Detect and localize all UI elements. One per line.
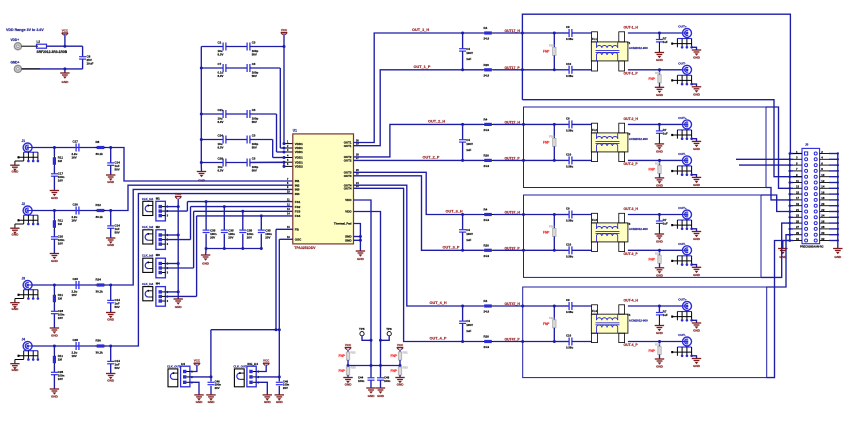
- svg-text:GND: GND: [693, 237, 701, 241]
- svg-text:0.56u: 0.56u: [566, 310, 573, 314]
- svg-text:CLK_in1: CLK_in1: [142, 197, 154, 201]
- svg-text:50V: 50V: [115, 366, 120, 370]
- svg-text:C21: C21: [218, 108, 224, 112]
- svg-text:T3: T3: [627, 222, 631, 226]
- svg-text:GND: GND: [276, 400, 284, 404]
- svg-text:GND: GND: [656, 365, 664, 369]
- svg-text:R4: R4: [484, 118, 488, 122]
- svg-text:OUT47_P: OUT47_P: [505, 338, 521, 342]
- svg-text:16V: 16V: [58, 241, 63, 245]
- svg-text:OUT-2_P: OUT-2_P: [624, 162, 639, 166]
- svg-text:GND: GND: [264, 400, 272, 404]
- svg-text:C3: C3: [252, 62, 256, 66]
- svg-text:T4: T4: [627, 313, 631, 317]
- svg-text:FL2: FL2: [592, 128, 597, 132]
- svg-text:GND: GND: [51, 395, 59, 399]
- svg-text:24.9: 24.9: [484, 218, 490, 222]
- svg-text:IN4: IN4: [295, 192, 300, 196]
- svg-text:C26: C26: [218, 156, 224, 160]
- svg-text:OUT_1_H: OUT_1_H: [412, 28, 429, 32]
- svg-text:R20: R20: [484, 63, 490, 67]
- svg-text:30.1k: 30.1k: [96, 350, 104, 354]
- svg-text:OUT_1_P: OUT_1_P: [414, 65, 431, 69]
- svg-text:GND: GND: [107, 379, 115, 383]
- svg-text:30: 30: [821, 231, 825, 235]
- svg-text:OUT-3_P: OUT-3_P: [624, 252, 639, 256]
- svg-text:1uF: 1uF: [466, 148, 471, 152]
- svg-text:VDD1: VDD1: [295, 150, 303, 154]
- svg-text:24.9: 24.9: [484, 345, 490, 349]
- svg-text:50V: 50V: [115, 305, 120, 309]
- svg-text:T1: T1: [627, 41, 631, 45]
- svg-text:50V: 50V: [115, 230, 120, 234]
- svg-text:100V: 100V: [466, 323, 473, 327]
- svg-text:19: 19: [796, 202, 800, 206]
- svg-text:C24: C24: [218, 133, 224, 137]
- svg-text:OUT-1_P: OUT-1_P: [624, 71, 639, 75]
- svg-text:C10: C10: [566, 62, 572, 66]
- svg-text:ACM2012-900: ACM2012-900: [629, 318, 648, 322]
- svg-text:0.56u: 0.56u: [566, 37, 573, 41]
- svg-text:M3: M3: [156, 253, 160, 257]
- svg-text:6.3V: 6.3V: [218, 74, 224, 78]
- svg-text:FS4: FS4: [295, 214, 301, 218]
- svg-text:C28: C28: [73, 338, 79, 342]
- svg-text:20V: 20V: [215, 386, 220, 390]
- svg-text:CLK_OUT: CLK_OUT: [167, 365, 180, 369]
- svg-text:20V: 20V: [228, 235, 233, 239]
- svg-text:24.9: 24.9: [484, 37, 490, 41]
- svg-text:FS1: FS1: [295, 200, 301, 204]
- svg-text:R30: R30: [96, 339, 102, 343]
- svg-text:R4: R4: [484, 299, 488, 303]
- svg-text:VDD: VDD: [345, 210, 352, 214]
- svg-text:17: 17: [796, 196, 800, 200]
- svg-text:50V: 50V: [252, 168, 257, 172]
- svg-text:30.1k: 30.1k: [96, 289, 104, 293]
- svg-text:C10: C10: [566, 242, 572, 246]
- svg-text:6.3V: 6.3V: [218, 52, 224, 56]
- svg-text:OSC: OSC: [295, 238, 302, 242]
- svg-text:GND: GND: [693, 329, 701, 333]
- svg-text:OUT_2_P: OUT_2_P: [423, 156, 440, 160]
- svg-text:FB8: FB8: [549, 316, 555, 320]
- svg-text:VCC: VCC: [175, 192, 182, 196]
- svg-text:FS2: FS2: [295, 205, 301, 209]
- svg-text:OUT+: OUT+: [678, 206, 687, 210]
- svg-text:R33: R33: [403, 366, 409, 370]
- svg-text:VCC: VCC: [345, 343, 352, 347]
- svg-text:OUT37_H: OUT37_H: [505, 211, 521, 215]
- svg-text:16: 16: [821, 190, 825, 194]
- svg-text:C9: C9: [566, 298, 570, 302]
- svg-text:CLK_in3: CLK_in3: [142, 254, 154, 258]
- svg-text:GND: GND: [51, 196, 59, 200]
- svg-text:R8: R8: [96, 140, 100, 144]
- svg-text:16V: 16V: [72, 293, 77, 297]
- svg-text:50V: 50V: [252, 52, 257, 56]
- svg-text:CLK_in2: CLK_in2: [142, 225, 154, 229]
- svg-text:H4: H4: [181, 362, 185, 366]
- svg-text:OUT_4_H: OUT_4_H: [430, 301, 447, 305]
- svg-text:IDE_H4: IDE_H4: [247, 362, 258, 366]
- svg-text:24: 24: [821, 214, 825, 218]
- svg-text:OUT27_P: OUT27_P: [505, 157, 521, 161]
- svg-text:R4: R4: [484, 26, 488, 30]
- svg-text:C3: C3: [252, 133, 256, 137]
- svg-text:10: 10: [821, 173, 825, 177]
- svg-text:16V: 16V: [72, 218, 77, 222]
- svg-text:M1: M1: [156, 196, 160, 200]
- svg-text:C9: C9: [566, 25, 570, 29]
- svg-text:25: 25: [796, 219, 800, 223]
- svg-text:24.9: 24.9: [484, 254, 490, 258]
- svg-text:50V: 50V: [115, 167, 120, 171]
- svg-text:OUT-4_H: OUT-4_H: [624, 299, 639, 303]
- svg-text:GND: GND: [656, 183, 664, 187]
- svg-text:C10: C10: [566, 334, 572, 338]
- svg-text:0.56u: 0.56u: [566, 164, 573, 168]
- svg-text:FB8: FB8: [549, 134, 555, 138]
- svg-text:6.3V: 6.3V: [218, 168, 224, 172]
- svg-text:OUT27_H: OUT27_H: [505, 121, 521, 125]
- svg-text:1M: 1M: [58, 357, 63, 361]
- svg-text:1uF: 1uF: [663, 131, 668, 135]
- svg-text:27: 27: [796, 225, 800, 229]
- svg-text:26: 26: [821, 219, 825, 223]
- svg-text:U1: U1: [293, 129, 297, 133]
- svg-text:OUT47_H: OUT47_H: [505, 302, 521, 306]
- svg-text:Thermal_Pad: Thermal_Pad: [334, 222, 352, 226]
- svg-text:30.1k: 30.1k: [96, 152, 104, 156]
- svg-text:GND: GND: [693, 92, 701, 96]
- svg-text:VDD+: VDD+: [11, 38, 20, 42]
- svg-text:VDD: VDD: [345, 198, 352, 202]
- svg-text:GND: GND: [107, 243, 115, 247]
- svg-text:0.56u: 0.56u: [566, 128, 573, 132]
- svg-text:R31: R31: [351, 351, 357, 355]
- svg-text:R17: R17: [655, 71, 661, 75]
- svg-text:OUT17_P: OUT17_P: [505, 66, 521, 70]
- svg-text:C3: C3: [252, 108, 256, 112]
- svg-text:C10: C10: [566, 152, 572, 156]
- svg-text:OUT-: OUT-: [678, 242, 685, 246]
- svg-text:VDD1: VDD1: [295, 156, 303, 160]
- svg-text:1uF: 1uF: [663, 40, 668, 44]
- svg-text:GND: GND: [693, 273, 701, 277]
- svg-text:GND: GND: [202, 262, 210, 266]
- svg-text:C20: C20: [73, 203, 79, 207]
- svg-text:OUT-2_H: OUT-2_H: [624, 117, 639, 121]
- svg-text:OUT37_P: OUT37_P: [505, 246, 521, 250]
- svg-text:OUT-3_H: OUT-3_H: [624, 207, 639, 211]
- svg-text:C2: C2: [218, 40, 222, 44]
- svg-text:J2: J2: [22, 202, 26, 206]
- svg-text:GND: GND: [656, 149, 664, 153]
- svg-text:0.56u: 0.56u: [566, 254, 573, 258]
- svg-text:C3: C3: [252, 40, 256, 44]
- svg-text:32: 32: [821, 237, 825, 241]
- svg-text:R17: R17: [655, 251, 661, 255]
- svg-text:1uF: 1uF: [663, 222, 668, 226]
- svg-text:C7: C7: [218, 62, 222, 66]
- svg-text:J1: J1: [22, 139, 26, 143]
- svg-text:J5: J5: [805, 143, 809, 147]
- svg-text:6.3V: 6.3V: [218, 120, 224, 124]
- svg-text:1M: 1M: [58, 159, 63, 163]
- svg-text:CLK_in4: CLK_in4: [142, 282, 154, 286]
- svg-text:GND: GND: [397, 383, 405, 387]
- svg-text:20V: 20V: [210, 235, 215, 239]
- svg-text:22: 22: [821, 208, 825, 212]
- svg-text:OUT_4_P: OUT_4_P: [430, 337, 447, 341]
- svg-text:GND: GND: [175, 305, 183, 309]
- svg-text:J3: J3: [22, 276, 26, 280]
- svg-text:1uF: 1uF: [663, 313, 668, 317]
- svg-text:GND: GND: [377, 394, 385, 398]
- svg-text:100n: 100n: [358, 379, 365, 383]
- svg-text:FNP: FNP: [649, 168, 656, 172]
- svg-text:VCC: VCC: [62, 28, 69, 32]
- svg-text:FNP: FNP: [543, 141, 550, 145]
- svg-text:VCC: VCC: [263, 359, 270, 363]
- svg-text:VDD2: VDD2: [295, 165, 303, 169]
- svg-text:14: 14: [821, 185, 825, 189]
- svg-text:PREC016SAAN-RC: PREC016SAAN-RC: [800, 245, 824, 249]
- svg-text:GND: GND: [656, 93, 664, 97]
- svg-text:GND: GND: [196, 400, 204, 404]
- svg-text:0.56u: 0.56u: [566, 74, 573, 78]
- svg-text:100V: 100V: [466, 142, 473, 146]
- svg-text:GND: GND: [693, 364, 701, 368]
- svg-text:C9: C9: [566, 116, 570, 120]
- svg-text:J4: J4: [22, 337, 26, 341]
- svg-text:OUT_3_H: OUT_3_H: [446, 210, 463, 214]
- svg-text:50V: 50V: [252, 74, 257, 78]
- svg-text:ACM2012-900: ACM2012-900: [629, 46, 648, 50]
- svg-text:GND: GND: [11, 368, 19, 372]
- svg-text:29: 29: [796, 231, 800, 235]
- svg-text:24.9: 24.9: [484, 73, 490, 77]
- svg-text:GND: GND: [107, 180, 115, 184]
- svg-text:FNP: FNP: [339, 354, 346, 358]
- svg-text:1uF: 1uF: [466, 238, 471, 242]
- svg-text:OUT_2_H: OUT_2_H: [428, 120, 445, 124]
- svg-text:100n: 100n: [384, 379, 391, 383]
- svg-text:M4: M4: [156, 282, 160, 286]
- svg-text:OUT2: OUT2: [344, 159, 352, 163]
- svg-text:1M: 1M: [58, 296, 63, 300]
- svg-text:1uF: 1uF: [466, 57, 471, 61]
- svg-text:FB8: FB8: [549, 43, 555, 47]
- svg-text:20V: 20V: [265, 235, 270, 239]
- svg-text:R4: R4: [484, 208, 488, 212]
- svg-text:50V: 50V: [252, 120, 257, 124]
- svg-text:VDD1: VDD1: [295, 142, 303, 146]
- svg-text:28: 28: [821, 225, 825, 229]
- svg-text:TP5: TP5: [359, 327, 365, 331]
- svg-text:C17: C17: [73, 140, 79, 144]
- svg-text:20: 20: [821, 202, 825, 206]
- svg-text:24.9: 24.9: [484, 164, 490, 168]
- svg-text:R20: R20: [484, 335, 490, 339]
- svg-text:16V: 16V: [72, 354, 77, 358]
- svg-text:20V: 20V: [283, 386, 288, 390]
- svg-text:VCC: VCC: [281, 28, 288, 32]
- svg-text:1M: 1M: [58, 222, 63, 226]
- svg-text:FNP: FNP: [339, 369, 346, 373]
- svg-text:24.9: 24.9: [484, 128, 490, 132]
- svg-text:0.56u: 0.56u: [566, 219, 573, 223]
- svg-text:FB8: FB8: [549, 224, 555, 228]
- svg-text:GND: GND: [11, 169, 19, 173]
- svg-text:GND: GND: [11, 307, 19, 311]
- svg-text:C9: C9: [566, 207, 570, 211]
- svg-text:16V: 16V: [58, 178, 63, 182]
- svg-text:FNP: FNP: [391, 354, 398, 358]
- svg-text:OUT-: OUT-: [678, 152, 685, 156]
- svg-text:31: 31: [796, 237, 800, 241]
- svg-text:GND+: GND+: [11, 61, 20, 65]
- svg-text:ACM2012-900: ACM2012-900: [629, 227, 648, 231]
- svg-text:18: 18: [821, 196, 825, 200]
- svg-text:FNP: FNP: [543, 231, 550, 235]
- svg-text:12: 12: [821, 179, 825, 183]
- svg-text:VCC: VCC: [194, 359, 201, 363]
- svg-text:SRF2012-3R3-1R0B: SRF2012-3R3-1R0B: [37, 50, 68, 54]
- svg-text:GND: GND: [11, 232, 19, 236]
- svg-text:GND: GND: [345, 383, 353, 387]
- svg-text:GND: GND: [693, 183, 701, 187]
- svg-text:TPA3251DDV: TPA3251DDV: [294, 246, 316, 250]
- svg-text:R20: R20: [484, 244, 490, 248]
- svg-text:11: 11: [796, 179, 799, 183]
- svg-text:GND: GND: [107, 318, 115, 322]
- svg-text:GND: GND: [345, 239, 353, 243]
- svg-text:OUT+: OUT+: [678, 25, 687, 29]
- svg-text:L2: L2: [37, 40, 41, 44]
- svg-text:15: 15: [796, 190, 800, 194]
- svg-text:GND: GND: [656, 331, 664, 335]
- svg-text:13: 13: [796, 185, 800, 189]
- svg-text:16V: 16V: [58, 316, 63, 320]
- svg-text:VDD Range 3V to 3.6V: VDD Range 3V to 3.6V: [6, 28, 44, 32]
- svg-text:OUT-: OUT-: [678, 61, 685, 65]
- svg-text:GND: GND: [61, 80, 69, 84]
- svg-text:T2: T2: [627, 132, 631, 136]
- svg-text:C23: C23: [73, 277, 79, 281]
- svg-text:100V: 100V: [466, 51, 473, 55]
- svg-text:R20: R20: [484, 154, 490, 158]
- svg-text:FL1: FL1: [592, 37, 597, 41]
- svg-text:R31: R31: [403, 351, 409, 355]
- svg-text:R24: R24: [96, 278, 102, 282]
- svg-text:0.56u: 0.56u: [566, 346, 573, 350]
- svg-text:FNP: FNP: [391, 369, 398, 373]
- svg-text:FL3: FL3: [592, 218, 597, 222]
- svg-text:OUT-4_P: OUT-4_P: [624, 343, 639, 347]
- svg-text:OUT+: OUT+: [678, 116, 687, 120]
- svg-text:30.1k: 30.1k: [96, 215, 104, 219]
- svg-text:R17: R17: [655, 343, 661, 347]
- svg-text:VCC: VCC: [397, 343, 404, 347]
- svg-text:50V: 50V: [252, 145, 257, 149]
- svg-text:FS3: FS3: [295, 210, 301, 214]
- svg-text:FNP: FNP: [649, 258, 656, 262]
- svg-text:FNP: FNP: [649, 77, 656, 81]
- svg-text:GND: GND: [656, 240, 664, 244]
- svg-text:C3: C3: [252, 156, 256, 160]
- svg-text:OUT17_H: OUT17_H: [505, 29, 521, 33]
- svg-text:OUT4: OUT4: [344, 187, 352, 191]
- svg-text:21: 21: [796, 208, 800, 212]
- svg-text:GND: GND: [656, 58, 664, 62]
- svg-text:GND: GND: [51, 334, 59, 338]
- svg-text:FNP: FNP: [543, 322, 550, 326]
- svg-text:GND: GND: [368, 394, 376, 398]
- svg-text:CLK_OUT: CLK_OUT: [233, 365, 246, 369]
- svg-text:24.9: 24.9: [484, 310, 490, 314]
- svg-text:TP6: TP6: [386, 327, 392, 331]
- svg-text:10uF: 10uF: [87, 62, 94, 66]
- svg-text:GND: GND: [656, 273, 664, 277]
- svg-text:20V: 20V: [247, 235, 252, 239]
- svg-text:OUT-1_H: OUT-1_H: [624, 26, 639, 30]
- svg-text:6.3V: 6.3V: [218, 145, 224, 149]
- svg-text:FL4: FL4: [592, 309, 597, 313]
- svg-text:GND: GND: [51, 259, 59, 263]
- svg-text:OUT3: OUT3: [344, 174, 352, 178]
- svg-text:FNP: FNP: [649, 349, 656, 353]
- svg-text:GND: GND: [693, 56, 701, 60]
- svg-text:M2: M2: [156, 225, 160, 229]
- svg-text:16V: 16V: [72, 155, 77, 159]
- svg-text:23: 23: [796, 214, 800, 218]
- svg-text:16V: 16V: [58, 377, 63, 381]
- svg-text:OUT1: OUT1: [344, 144, 352, 148]
- svg-text:1uF: 1uF: [466, 329, 471, 333]
- svg-text:GND: GND: [208, 400, 216, 404]
- svg-text:OUT+: OUT+: [678, 298, 687, 302]
- svg-text:OUT_3_P: OUT_3_P: [443, 246, 460, 250]
- svg-text:GND: GND: [693, 147, 701, 151]
- svg-text:ACM2012-900: ACM2012-900: [629, 137, 648, 141]
- svg-text:OUT-: OUT-: [678, 333, 685, 337]
- svg-text:GND: GND: [357, 257, 365, 261]
- svg-text:100V: 100V: [466, 232, 473, 236]
- svg-text:FNP: FNP: [543, 50, 550, 54]
- svg-text:GND: GND: [834, 255, 842, 259]
- svg-text:R12: R12: [96, 203, 102, 207]
- svg-text:R17: R17: [655, 161, 661, 165]
